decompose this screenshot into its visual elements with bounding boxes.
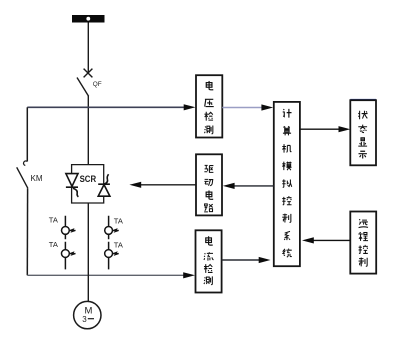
text 计算机模拟控制系统 [282, 109, 291, 257]
text 电压检测 [204, 81, 213, 134]
circuit breaker QF blade [77, 78, 89, 97]
block current detection [196, 230, 222, 292]
bottom wire to current detection [27, 274, 186, 276]
motor M [74, 301, 101, 328]
contactor KM blade [17, 167, 28, 188]
circuit breaker QF cross contact [84, 69, 93, 78]
current transformer TA1 [62, 227, 76, 235]
SCR module box [72, 165, 104, 203]
right CT phase wire [108, 216, 110, 270]
wire busbar to breaker [87, 23, 89, 74]
thyristor V2 right [98, 174, 110, 196]
label 3~ [82, 315, 94, 324]
current transformer TA4 [105, 250, 119, 258]
svg-text:TA: TA [49, 216, 58, 225]
block remote control [350, 212, 376, 274]
text 远程控制 [358, 219, 368, 266]
svg-text:TA: TA [114, 216, 123, 225]
block computer analog control system [274, 102, 300, 266]
text 状态显示 [358, 111, 367, 159]
wire horizontal bus to voltage detection [27, 106, 185, 108]
wire SCR module to motor [87, 203, 89, 302]
wire voltage detection to computer [222, 104, 273, 110]
wire current detection to computer [222, 257, 271, 263]
thyristor V1 left [66, 174, 79, 197]
block status display [350, 99, 376, 101]
svg-text:TA: TA [114, 240, 123, 249]
svg-text:TA: TA [49, 240, 58, 249]
svg-text:3: 3 [82, 315, 87, 324]
svg-text:KM: KM [31, 174, 43, 183]
text 电流检测 [204, 236, 213, 284]
wire left branch down to contactor [26, 107, 28, 161]
block voltage detection [196, 75, 222, 137]
wire computer to status display [300, 126, 350, 132]
power busbar [72, 15, 105, 23]
wire QF to SCR module [87, 96, 89, 165]
wire computer to drive circuit [223, 183, 274, 189]
wire KM to bottom bus [26, 188, 28, 275]
current transformer TA3 [105, 227, 119, 235]
current transformer TA2 [62, 250, 76, 258]
svg-text:QF: QF [93, 81, 102, 88]
wire remote control to computer [302, 237, 350, 243]
arrow into current detection [183, 272, 195, 278]
contactor KM fixed contact hook [24, 161, 28, 166]
text 驱动电路 [204, 165, 213, 211]
svg-text:SCR: SCR [80, 174, 97, 184]
arrow into voltage detection [184, 104, 196, 110]
left CT phase wire [64, 216, 66, 270]
drive wire to SCR gates [141, 184, 196, 186]
block drive circuit [196, 154, 222, 215]
